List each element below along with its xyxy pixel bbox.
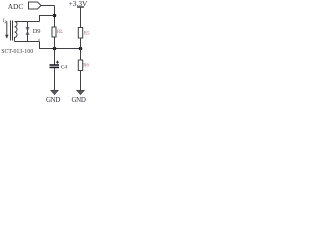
ground GND right: [77, 90, 85, 94]
port flag ADC: [29, 2, 42, 9]
capacitor C4 polarized: [50, 64, 60, 66]
svg-text:R5: R5: [84, 32, 90, 37]
svg-text:D9: D9: [33, 28, 41, 35]
svg-text:ADC: ADC: [8, 2, 24, 11]
wire jog from transformer top to node A: [40, 16, 55, 22]
resistor R6: [78, 60, 82, 71]
wire +3.3V to R5: [80, 7, 82, 28]
wire jog from bottom wire down to rail: [40, 42, 55, 49]
wire vertical ADC down to RL: [54, 6, 56, 28]
junction node C: [79, 47, 83, 51]
svg-text:R6: R6: [83, 64, 89, 69]
wire R6 to ground: [80, 71, 82, 92]
ground GND left: [51, 90, 59, 94]
junction node A: [53, 14, 57, 18]
wire ADC to corner: [41, 5, 55, 7]
transformer T1 core: [10, 21, 12, 41]
TVS diode D9: [27, 22, 29, 42]
wire C4 to ground: [54, 68, 56, 91]
wire bottom rail: [55, 48, 81, 50]
wire node B down to C4: [54, 49, 56, 65]
pin stub at transformer bottom corner: [38, 39, 40, 42]
svg-text:SCT-013-100: SCT-013-100: [1, 48, 33, 55]
wire transformer secondary top: [15, 21, 40, 23]
resistor RL: [54, 37, 56, 49]
svg-text:GND: GND: [71, 97, 85, 104]
svg-text:RL: RL: [57, 30, 63, 35]
resistor R5: [78, 28, 82, 39]
wire R5 bottom to node C: [80, 38, 82, 49]
svg-text:C4: C4: [61, 65, 68, 71]
wire transformer secondary bottom: [15, 41, 40, 43]
transformer T1 primary conductor with arrow: [6, 22, 8, 36]
transformer T1 secondary winding: [15, 22, 18, 42]
svg-text:GND: GND: [46, 97, 60, 104]
junction node B: [53, 47, 57, 51]
wire node C to R6: [80, 49, 82, 61]
plus sign of C4: [56, 61, 59, 63]
